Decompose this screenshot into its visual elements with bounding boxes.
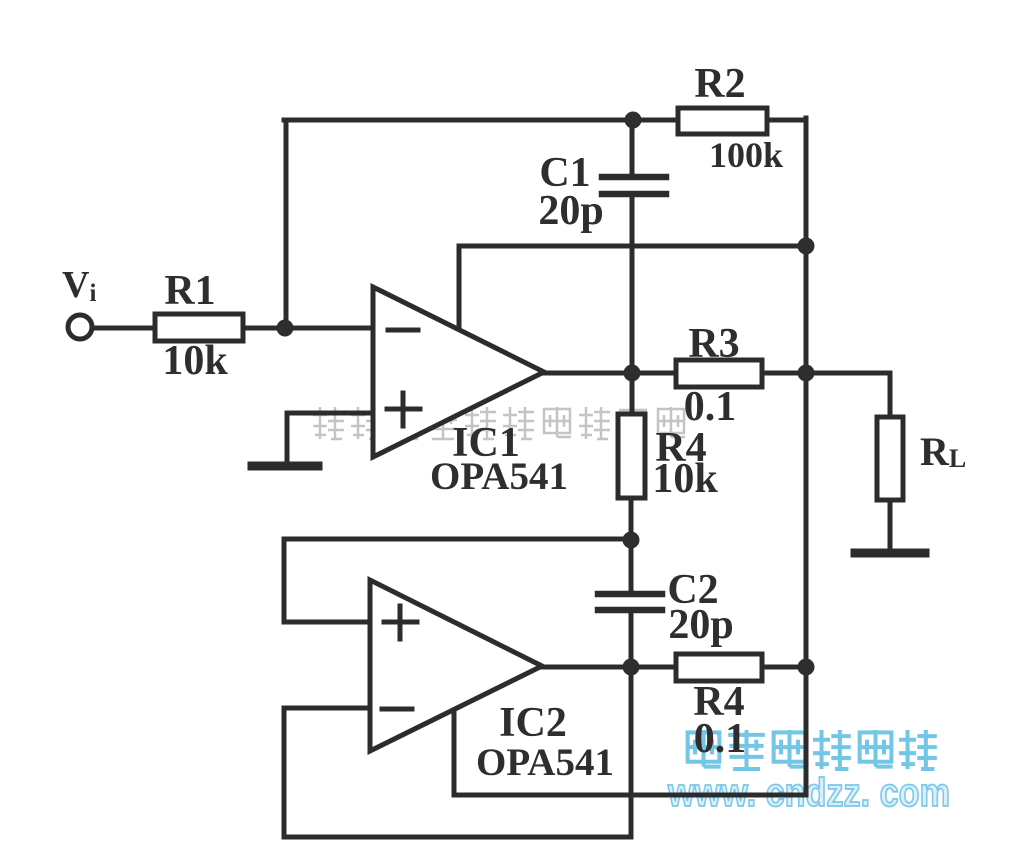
resistor R1 — [155, 314, 243, 341]
svg-text:0.1: 0.1 — [694, 716, 747, 762]
node C rail mid — [798, 238, 815, 255]
watermark blue site name 电子电路图站 — [688, 730, 937, 769]
wire IC1 top pin vertical — [457, 246, 462, 331]
wire right rail — [804, 118, 809, 795]
node E rail output — [798, 365, 815, 382]
wire RL top stem — [888, 373, 893, 418]
svg-text:20p: 20p — [538, 188, 603, 234]
wire IC1 plus input — [287, 411, 375, 416]
op-amp IC1 — [373, 287, 544, 457]
wire C2 top stem — [629, 539, 634, 592]
IC1 plus sign — [387, 393, 420, 426]
IC1 minus sign — [388, 328, 418, 333]
resistor R2 — [678, 108, 767, 134]
svg-text:100k: 100k — [709, 135, 783, 175]
op-amp IC2 — [370, 580, 542, 751]
watermark gray company text 杭州将睿科技有限公司 — [313, 407, 685, 439]
wire IC2 bottom feedback horizontal — [284, 835, 631, 840]
wire top feedback horizontal — [284, 118, 679, 123]
node H rail IC2 out — [798, 659, 815, 676]
wire C1 top stem — [630, 120, 635, 174]
node G IC2 output — [623, 659, 640, 676]
svg-text:20p: 20p — [668, 602, 733, 648]
resistor R4b horizontal — [676, 654, 762, 681]
svg-text:OPA541: OPA541 — [430, 455, 568, 498]
ground IC1 — [252, 462, 318, 471]
svg-text:IC2: IC2 — [499, 700, 567, 746]
svg-text:10k: 10k — [162, 338, 228, 384]
wire IC2 bottom pin vertical — [452, 709, 457, 795]
wire IC2 minus input — [284, 706, 372, 711]
node F IC2 top — [623, 532, 640, 549]
wire R1 to IC1 inverting input — [242, 326, 375, 331]
wire IC2 top feedback vertical — [282, 539, 287, 622]
IC2 plus sign — [384, 606, 417, 639]
input terminal Vi — [68, 315, 92, 339]
resistor R4 vertical — [618, 414, 645, 498]
wire IC2 plus input — [284, 620, 372, 625]
wire IC2 top feedback horizontal — [284, 537, 631, 542]
svg-text:R2: R2 — [694, 61, 745, 107]
wire C2 bottom stem — [629, 611, 634, 667]
svg-text:0.1: 0.1 — [684, 384, 737, 430]
wire R4 bottom stem — [629, 497, 634, 540]
wire IC2 bottom pin horizontal — [454, 793, 806, 798]
wire C1 bottom stem to output node — [630, 196, 635, 373]
node B top — [625, 112, 642, 129]
capacitor C2 — [598, 594, 662, 610]
svg-text:OPA541: OPA541 — [476, 741, 614, 784]
wire RL bottom stem — [888, 499, 893, 551]
wire R4b to right rail — [760, 665, 806, 670]
wire IC1 output — [544, 371, 677, 376]
wire input to R1 — [93, 326, 157, 331]
wire IC1 plus to ground — [285, 413, 290, 461]
node A input — [277, 320, 294, 337]
capacitor C1 — [602, 177, 666, 194]
svg-text:R3: R3 — [688, 321, 739, 367]
svg-text:R1: R1 — [164, 268, 215, 314]
wire R4 top stem — [630, 373, 635, 415]
wire IC2 output — [542, 665, 677, 670]
resistor RL — [877, 417, 903, 500]
wire R3 to right rail and RL — [760, 371, 890, 376]
svg-text:10k: 10k — [652, 456, 718, 502]
wire R2 to right rail — [766, 118, 806, 123]
wire IC2 minus feedback vertical — [282, 708, 287, 837]
resistor R3 — [676, 360, 762, 387]
ground RL — [855, 549, 925, 558]
wire node to top feedback — [284, 120, 289, 328]
IC2 minus sign — [382, 707, 412, 712]
node D output IC1 — [624, 365, 641, 382]
wire IC1 top pin horizontal — [459, 244, 806, 249]
wire IC2 output down — [629, 667, 634, 837]
